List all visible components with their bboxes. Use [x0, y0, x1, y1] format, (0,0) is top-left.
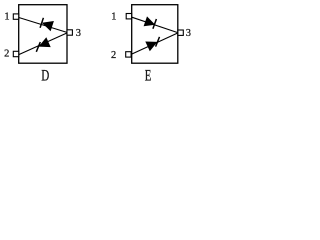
- diode D4 triangle (anode pin 2, cathode toward pin 3): [145, 42, 157, 52]
- pin 2 pad (D): [13, 51, 18, 56]
- pin 2 pad (E): [126, 52, 131, 57]
- wire pin2 to pin3 (E): [131, 33, 177, 54]
- svg-text:1: 1: [111, 11, 116, 22]
- pin 3 pad (E): [178, 30, 183, 35]
- package outline D: [19, 5, 67, 64]
- svg-text:3: 3: [76, 28, 81, 39]
- svg-text:2: 2: [111, 50, 116, 61]
- pin 3 pad (D): [67, 30, 72, 35]
- diode D2 cathode bar: [36, 42, 40, 52]
- svg-text:D: D: [41, 67, 49, 84]
- diode D1 cathode bar: [40, 18, 43, 28]
- svg-text:3: 3: [186, 28, 191, 39]
- svg-text:E: E: [145, 67, 152, 84]
- svg-text:2: 2: [4, 49, 9, 60]
- package outline E: [132, 5, 178, 64]
- diode D3 cathode bar: [153, 19, 157, 29]
- diode D4 cathode bar: [156, 37, 160, 47]
- wire pin1 to pin3 (D): [19, 18, 67, 33]
- pin 1 pad (E): [126, 14, 131, 19]
- svg-text:1: 1: [4, 11, 9, 22]
- diode D1 triangle (cathode toward pin 1): [42, 21, 54, 31]
- pin 1 pad (D): [13, 14, 18, 19]
- wire pin1 to pin3 (E): [132, 17, 178, 32]
- wire pin2 to pin3 (D): [19, 33, 67, 55]
- diode D2 triangle (cathode toward pin 2): [39, 37, 51, 47]
- diode D3 triangle (anode pin 1, cathode toward pin 3): [144, 16, 156, 26]
